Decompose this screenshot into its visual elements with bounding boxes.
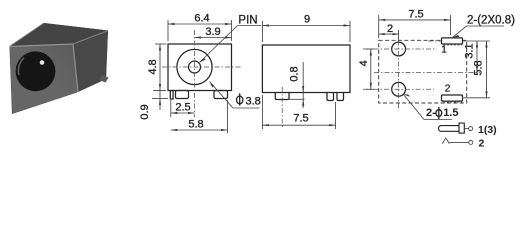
side view rear prong 2	[337, 93, 344, 101]
dimension 6.4 line	[168, 23, 232, 25]
svg-text:0.8: 0.8	[289, 66, 301, 81]
front view vertical centerline	[194, 30, 196, 117]
pad centerline extension right pad1	[464, 40, 491, 42]
bottom view body hidden outline	[379, 40, 467, 103]
side view rear prong 1	[327, 93, 334, 101]
label 2-phi1.5 phi symbol	[436, 107, 442, 119]
pad centerline extension right pad2	[464, 97, 491, 99]
svg-text:2-: 2-	[426, 107, 436, 119]
bottom view hole 2	[392, 82, 406, 96]
photo: jack terminal pin nub	[100, 75, 109, 83]
label 2-(2X0.8) leader	[453, 26, 505, 38]
bottom view hole 1	[392, 42, 406, 56]
front view left leg	[176, 91, 189, 99]
photo: jack silhouette base	[10, 23, 109, 114]
front view horizontal centerline	[162, 66, 241, 68]
dimension 5.8 line	[171, 129, 228, 131]
photo: barrel rim ring highlight	[18, 58, 24, 75]
side view leg centerline	[281, 87, 283, 129]
svg-text:2.5: 2.5	[175, 102, 190, 114]
PIN leader underline	[238, 25, 262, 27]
photo: edge highlight top-left silhouette	[10, 23, 45, 47]
front view pin circle	[189, 61, 201, 73]
dimension 6.4 extension lines	[167, 20, 169, 41]
PIN leader line	[200, 26, 238, 63]
svg-text:3.9: 3.9	[205, 26, 220, 38]
legend pin symbol	[439, 126, 459, 132]
svg-text:PIN: PIN	[238, 15, 257, 27]
dimension 7.5 line (bottom view)	[379, 19, 451, 21]
dimension 0.9 extension tick	[152, 98, 168, 100]
svg-text:3.8: 3.8	[246, 96, 261, 108]
photo: jack barrel hole	[16, 51, 56, 91]
dimension 3.9 line	[195, 37, 232, 39]
front view body	[168, 44, 232, 91]
phi 3.8 leader	[210, 82, 234, 109]
dimension 5.8 extension line right	[227, 100, 229, 133]
photo: jack right side face	[73, 31, 108, 93]
dimension 7.5 extension lines (bottom view)	[378, 15, 380, 38]
dimension 4.8 extension ticks	[155, 43, 166, 45]
photo: edge highlight front-right	[73, 44, 78, 92]
svg-text:9: 9	[304, 14, 310, 26]
dimension 9 line	[262, 25, 350, 27]
bottom view pad 1 hatch	[444, 44, 463, 46]
legend spring 2 wire and terminal	[449, 141, 469, 143]
svg-text:4: 4	[358, 60, 370, 66]
dimension 9 extension lines	[261, 21, 263, 42]
front view right leg	[214, 91, 228, 99]
bottom view holes vertical centerline	[398, 30, 400, 111]
front view left tab	[170, 91, 173, 100]
svg-text:2: 2	[387, 23, 393, 35]
svg-text:3.1: 3.1	[464, 43, 476, 58]
bottom view body horizontal centerline	[374, 72, 480, 74]
svg-text:6.4: 6.4	[194, 13, 209, 25]
label 2-phi1.5 leader	[404, 95, 425, 120]
legend spring symbol	[442, 138, 449, 144]
svg-text:1.5: 1.5	[443, 107, 458, 119]
photo: edge highlight top-right	[73, 31, 107, 44]
photo: edge highlight top-front	[10, 44, 74, 47]
svg-text:5.8: 5.8	[188, 119, 203, 131]
svg-text:1: 1	[441, 45, 447, 56]
svg-text:7.5: 7.5	[293, 113, 308, 125]
bottom view pad 2	[442, 95, 463, 101]
dimension 4 line	[370, 49, 372, 89]
svg-text:0.9: 0.9	[139, 104, 151, 119]
svg-text:1(3): 1(3)	[478, 124, 497, 136]
phi 3.8 symbol	[237, 93, 243, 105]
dimension 0.8 extension line	[289, 98, 305, 100]
pad 1 centerline	[428, 40, 441, 42]
side view front leg	[275, 93, 289, 100]
svg-text:7.5: 7.5	[408, 8, 423, 20]
bottom view hole 1 horizontal centerline	[363, 48, 437, 50]
dimension 2.5 line	[171, 112, 195, 114]
dimension 4 extension ticks	[366, 48, 374, 50]
dimension 5.8 line (bottom view)	[486, 41, 488, 98]
dimension 3.1 line	[476, 41, 478, 73]
bottom view hole 2 horizontal centerline	[363, 88, 434, 90]
svg-text:2-(2X0.8): 2-(2X0.8)	[467, 15, 515, 27]
dimension 7.5 line	[262, 124, 335, 126]
front view barrel circle	[177, 49, 212, 84]
dimension 0.9 line with outside arrows	[159, 91, 161, 111]
photo: jack top face	[10, 23, 109, 47]
svg-text:4.8: 4.8	[147, 59, 159, 74]
dimension 4.8 line	[159, 44, 161, 91]
bottom view pad 2 hatch	[444, 101, 463, 103]
dimension 2 extension line	[398, 30, 400, 40]
bottom view pad 1	[442, 38, 463, 44]
svg-text:5.8: 5.8	[473, 60, 485, 75]
svg-text:2: 2	[479, 137, 485, 149]
photo: jack center pin highlight	[40, 60, 45, 65]
dimension 2.5 extension line	[170, 100, 172, 117]
dimension 2 line	[379, 33, 399, 35]
dimension 0.8 line with outside arrows	[302, 62, 304, 108]
dimension 7.5 extension lines	[261, 95, 263, 129]
svg-text:2: 2	[445, 84, 451, 95]
side view body	[262, 45, 350, 93]
legend pin 1(3) wire and terminal	[464, 128, 468, 130]
